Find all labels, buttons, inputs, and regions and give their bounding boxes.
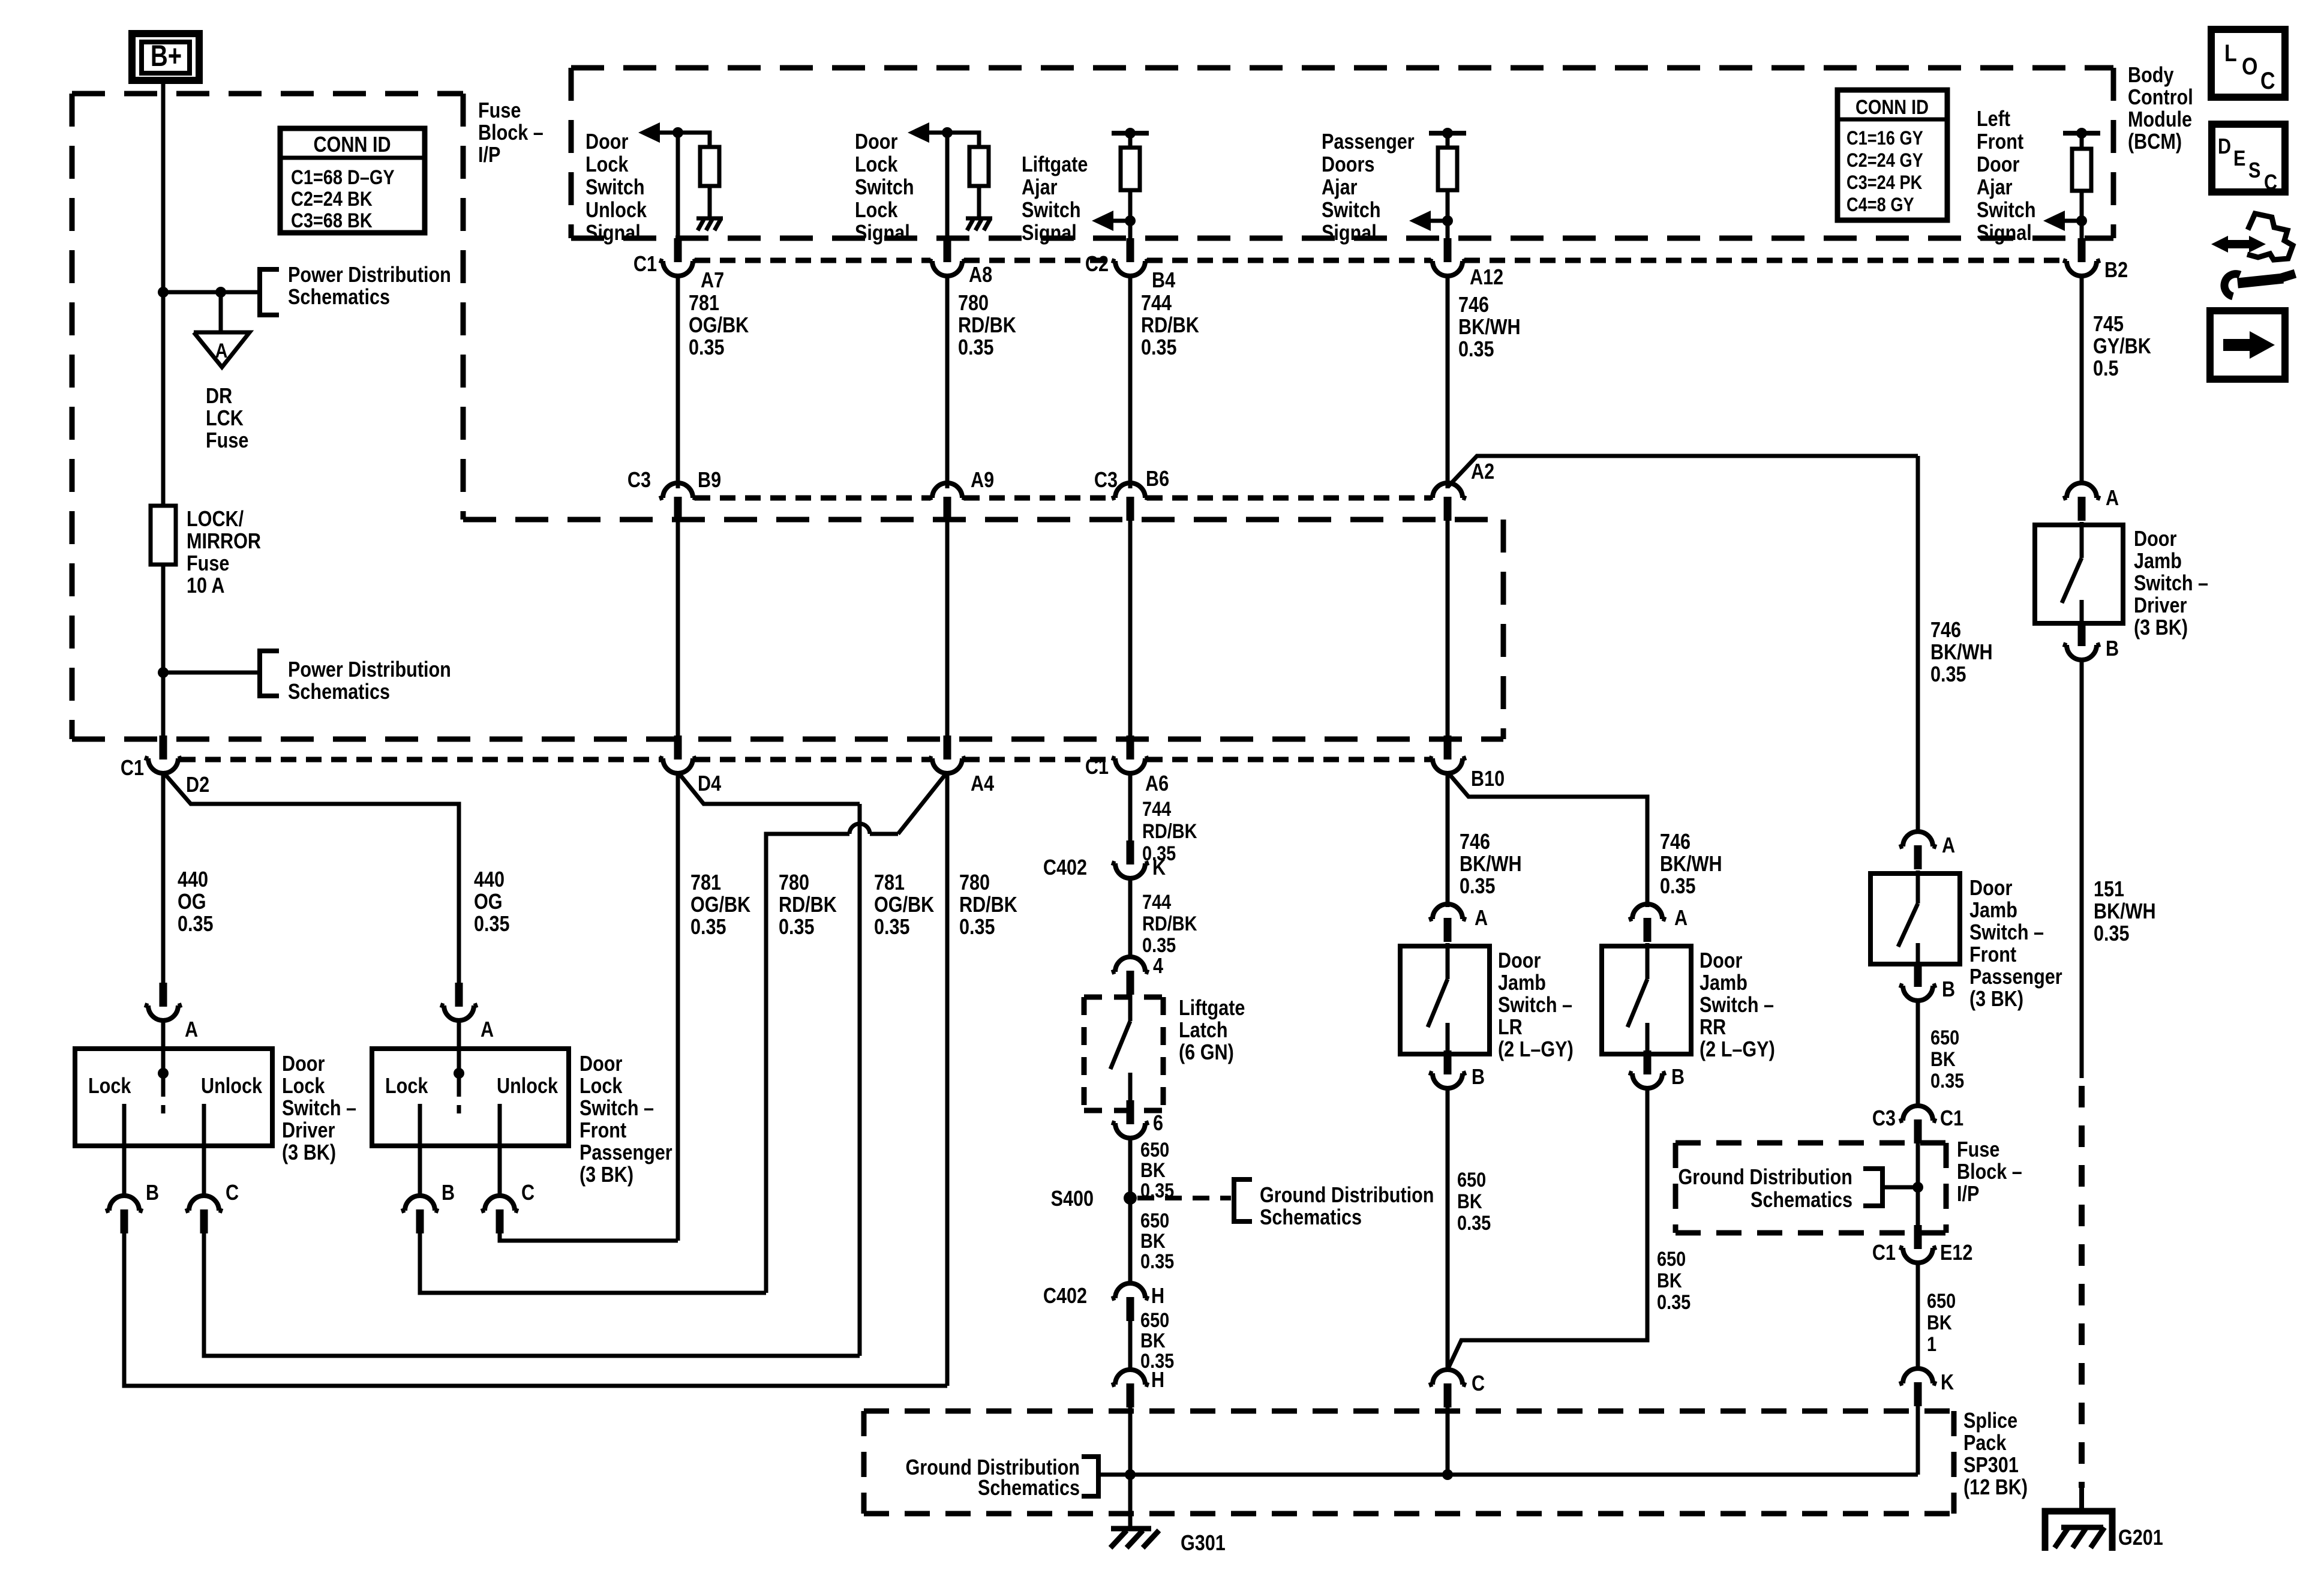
wire H into splice pack: [1128, 1407, 1133, 1475]
label S400: [1051, 1187, 1094, 1211]
svg-text:1: 1: [1927, 1332, 1936, 1356]
svg-text:OG/BK: OG/BK: [874, 893, 934, 917]
label A12: [1470, 266, 1503, 290]
top bar circuit5: [2063, 128, 2100, 139]
door jamb switch RR box: [1602, 946, 1691, 1054]
svg-text:Body: Body: [2128, 64, 2174, 88]
svg-text:440: 440: [474, 868, 505, 892]
svg-text:BK: BK: [1657, 1269, 1682, 1292]
label Door Jamb Switch - LR: [1498, 949, 1574, 1062]
label C402 at K: [1043, 856, 1087, 880]
label 780 RD/BK 0.35 column4: [959, 871, 1017, 939]
svg-text:A9: A9: [971, 469, 994, 493]
label Lock passenger: [385, 1074, 428, 1098]
svg-text:LCK: LCK: [206, 407, 244, 431]
door jamb front passenger contact: [1916, 943, 1920, 964]
svg-text:440: 440: [178, 868, 208, 892]
dashed link S400 to bracket: [1137, 1196, 1231, 1200]
bracket power distribution schematics 2: [260, 651, 279, 696]
svg-text:Door: Door: [585, 130, 628, 154]
svg-text:Switch: Switch: [585, 176, 645, 200]
svg-text:Schematics: Schematics: [978, 1476, 1080, 1500]
svg-text:B+: B+: [151, 39, 182, 73]
label 744 RD/BK 0.35 lower: [1142, 890, 1197, 957]
door jamb front passenger pole: [1916, 870, 1920, 903]
svg-text:BK: BK: [1930, 1047, 1956, 1071]
door jamb LR pole: [1446, 943, 1450, 979]
wire bar to resistor circuit3: [1128, 133, 1133, 148]
resistor circuit4: [1438, 148, 1457, 190]
wire E12 to K: [1916, 1262, 1920, 1370]
branch B10 to RR jamb: [1448, 772, 1647, 907]
svg-text:Switch: Switch: [1022, 199, 1081, 223]
lock switch passenger lock contact: [418, 1104, 422, 1146]
wire driver lock contact to B: [122, 1146, 127, 1197]
svg-text:0.5: 0.5: [2093, 357, 2119, 381]
label B10: [1471, 767, 1505, 791]
svg-text:Door: Door: [1498, 949, 1541, 973]
junction dot circuit4: [1442, 215, 1453, 226]
wire passenger lock to 780 column: [420, 1233, 766, 1293]
svg-text:Signal: Signal: [855, 221, 910, 245]
svg-text:A2: A2: [1471, 460, 1494, 484]
conn id table right (BCM): [1837, 90, 1947, 220]
svg-text:Lock: Lock: [385, 1074, 428, 1098]
svg-text:Module: Module: [2128, 108, 2192, 132]
svg-text:A: A: [1942, 834, 1955, 858]
label E12: [1940, 1241, 1972, 1265]
label D2: [186, 773, 209, 797]
connector B2: [2063, 238, 2100, 276]
fuse block I/P box (left tall dashed outline): [72, 94, 463, 739]
svg-text:Fuse: Fuse: [478, 99, 521, 123]
arrow liftgate ajar signal: [1092, 211, 1130, 231]
wire bus to ground G301: [1128, 1475, 1133, 1527]
wire fuse to power distribution tap 2: [161, 565, 166, 673]
connector C1/E12: [1899, 1225, 1936, 1263]
label C1 at E12: [1872, 1241, 1896, 1265]
label 746 BK/WH 0.35 RR: [1660, 830, 1722, 899]
svg-text:0.35: 0.35: [1457, 1211, 1491, 1235]
svg-text:0.35: 0.35: [874, 915, 910, 939]
connector A door jamb driver: [2063, 483, 2119, 521]
svg-text:0.35: 0.35: [1930, 1069, 1964, 1092]
label Door Jamb Switch - Front Passenger: [1969, 876, 2062, 1011]
dashed wire 151 to G201: [2079, 1086, 2085, 1488]
label 745 GY/BK 0.5: [2093, 313, 2151, 381]
svg-text:A8: A8: [969, 263, 992, 287]
svg-text:650: 650: [1140, 1138, 1169, 1161]
svg-text:0.35: 0.35: [1140, 1250, 1174, 1273]
wire B+ to fuse block: [161, 80, 166, 292]
svg-text:Switch –: Switch –: [1498, 993, 1572, 1017]
svg-text:0.35: 0.35: [474, 912, 510, 936]
svg-text:BK/WH: BK/WH: [1458, 316, 1521, 340]
wire C into splice pack: [1446, 1407, 1450, 1475]
svg-text:RD/BK: RD/BK: [958, 314, 1016, 338]
door jamb switch LR box: [1400, 946, 1490, 1054]
liftgate latch dashed box: [1084, 997, 1163, 1110]
wire circuit2 to A8: [945, 133, 950, 240]
label 151 BK/WH 0.35: [2094, 878, 2156, 946]
svg-text:CONN ID: CONN ID: [313, 133, 391, 157]
door lock switch front passenger box: [372, 1049, 569, 1146]
svg-text:Signal: Signal: [1022, 221, 1077, 245]
wire to triangle connector A: [219, 292, 223, 332]
connector D4: [659, 736, 696, 773]
svg-text:0.35: 0.35: [1141, 336, 1177, 360]
svg-text:Jamb: Jamb: [1969, 899, 2017, 923]
arrow passenger doors ajar signal: [1409, 211, 1448, 231]
connector C402 H: [1112, 1283, 1149, 1321]
svg-text:G201: G201: [2118, 1526, 2163, 1550]
svg-text:Power Distribution: Power Distribution: [288, 263, 451, 287]
door jamb driver contact: [2080, 600, 2084, 623]
label 650 BK 0.35 LR: [1457, 1168, 1491, 1235]
wire passenger unlock contact to C: [498, 1146, 502, 1197]
svg-text:744: 744: [1142, 890, 1172, 914]
label Unlock driver: [201, 1074, 262, 1098]
svg-text:S400: S400: [1051, 1187, 1094, 1211]
wire tap to power distribution bracket 2: [163, 671, 260, 675]
label G201: [2118, 1526, 2163, 1550]
svg-text:Fuse: Fuse: [206, 429, 248, 453]
svg-text:Switch –: Switch –: [1969, 921, 2044, 945]
label B2: [2104, 259, 2128, 283]
liftgate latch switch blade: [1110, 1021, 1130, 1069]
svg-text:(3 BK): (3 BK): [282, 1141, 336, 1165]
svg-text:Control: Control: [2128, 86, 2193, 110]
svg-text:H: H: [1151, 1368, 1164, 1392]
dotted harness line middle: [695, 496, 1431, 501]
svg-text:0.35: 0.35: [690, 915, 726, 939]
svg-text:(12 BK): (12 BK): [1963, 1476, 2028, 1500]
label Liftgate Latch (6 GN): [1179, 996, 1245, 1065]
svg-text:BK/WH: BK/WH: [1930, 641, 1993, 665]
svg-text:Lock: Lock: [580, 1074, 623, 1098]
label Splice Pack SP301 (12 BK): [1963, 1409, 2028, 1500]
icon wiring harness with double arrow and wrench: [2211, 214, 2295, 296]
svg-text:BK: BK: [1140, 1229, 1166, 1253]
liftgate latch switch contact: [1128, 1073, 1133, 1107]
svg-text:746: 746: [1660, 830, 1691, 854]
label 781 OG/BK 0.35 upper: [689, 292, 749, 360]
svg-text:781: 781: [690, 871, 721, 895]
wire passenger unlock to 781 column: [500, 1233, 678, 1241]
wire resistor to ground circuit1: [708, 186, 712, 217]
svg-text:650: 650: [1457, 1168, 1486, 1191]
svg-text:780: 780: [959, 871, 990, 895]
label 744 RD/BK 0.35 mid: [1142, 797, 1197, 865]
svg-text:746: 746: [1460, 830, 1490, 854]
svg-text:D2: D2: [186, 773, 209, 797]
resistor circuit1: [700, 147, 719, 186]
svg-text:C1: C1: [1940, 1107, 1963, 1131]
svg-text:650: 650: [1657, 1247, 1686, 1271]
door jamb driver blade: [2062, 558, 2082, 603]
label 650 BK 0.35 above H: [1140, 1209, 1174, 1273]
label B6: [1146, 467, 1169, 491]
wire resistor to ground circuit2: [977, 186, 981, 217]
label C3 at B6: [1094, 469, 1118, 493]
svg-text:C: C: [1472, 1372, 1485, 1396]
svg-text:780: 780: [779, 871, 809, 895]
resistor circuit2: [969, 147, 989, 186]
label 440 OG 0.35 driver: [178, 868, 214, 936]
label B4: [1152, 269, 1175, 293]
lock switch passenger unlock contact: [498, 1104, 502, 1146]
svg-text:Switch: Switch: [1977, 199, 2036, 223]
svg-text:Door: Door: [1977, 153, 2019, 177]
body control module BCM dashed box: [571, 68, 2113, 238]
svg-text:BK: BK: [1140, 1329, 1166, 1352]
lock switch driver lock contact: [122, 1104, 127, 1146]
svg-text:SP301: SP301: [1963, 1454, 2019, 1478]
connector A door jamb RR: [1629, 904, 1688, 942]
label K: [1152, 856, 1166, 880]
wire front passenger B to C3/C1: [1916, 999, 1920, 1107]
wire driver unlock contact to C: [202, 1146, 206, 1197]
svg-text:B: B: [1942, 978, 1955, 1002]
svg-text:C: C: [226, 1181, 239, 1205]
svg-text:Passenger: Passenger: [1322, 130, 1415, 154]
label A9: [971, 469, 994, 493]
wire circuit4 to A12: [1446, 221, 1450, 240]
svg-text:C2=24 BK: C2=24 BK: [291, 187, 373, 211]
svg-text:C2: C2: [1085, 253, 1109, 277]
svg-text:0.35: 0.35: [1657, 1290, 1691, 1314]
svg-text:Lock: Lock: [282, 1074, 325, 1098]
splice pack bus wire: [1098, 1473, 1918, 1477]
svg-text:A4: A4: [971, 772, 994, 796]
wire H to H: [1128, 1321, 1133, 1371]
label 650 BK 0.35 above S400: [1140, 1138, 1174, 1202]
wire circuit1 to C1/A7: [676, 133, 680, 240]
wire B6 to A6: [1128, 520, 1133, 737]
arrow door lock unlock signal: [638, 122, 678, 143]
ground symbol circuit1: [696, 218, 723, 230]
label Left Front Door Ajar Switch Signal: [1977, 107, 2036, 245]
wire front passenger jamb drop: [1916, 456, 1920, 833]
svg-text:B: B: [146, 1181, 159, 1205]
svg-text:C: C: [2264, 171, 2277, 195]
svg-text:(BCM): (BCM): [2128, 130, 2182, 154]
svg-text:Schematics: Schematics: [1260, 1206, 1362, 1230]
battery B+ symbol: [132, 34, 199, 80]
label Power Distribution Schematics 2: [288, 658, 451, 704]
connector A12: [1429, 238, 1466, 276]
svg-text:746: 746: [1930, 619, 1961, 643]
svg-text:C402: C402: [1043, 1284, 1087, 1308]
connector H splice pack: [1112, 1370, 1149, 1407]
connector B door jamb front passenger: [1899, 963, 1955, 1002]
svg-text:MIRROR: MIRROR: [187, 530, 261, 554]
wire B+ feed down to fuse: [161, 292, 166, 506]
label Door Lock Switch - Front Passenger: [580, 1052, 672, 1187]
svg-text:BK/WH: BK/WH: [1460, 852, 1522, 876]
label A7: [701, 269, 724, 293]
door jamb LR blade: [1428, 979, 1448, 1027]
wire S400 to C402 H: [1128, 1198, 1133, 1284]
svg-text:C1: C1: [121, 757, 144, 781]
liftgate latch switch pole: [1128, 993, 1133, 1021]
small fuse block dashed box (ground distribution): [1676, 1143, 1946, 1233]
bracket ground distribution at S400: [1234, 1179, 1252, 1221]
splice S400: [1124, 1191, 1137, 1205]
wire A2 to B10: [1446, 520, 1450, 737]
label 746 BK/WH 0.35 at A2 branch: [1930, 619, 1993, 687]
wire 6 to S400: [1128, 1137, 1133, 1198]
svg-text:A: A: [1674, 906, 1688, 930]
junction dot circuit1: [672, 127, 683, 138]
connector C402 K: [1112, 840, 1149, 878]
svg-text:BK: BK: [1457, 1190, 1482, 1213]
wire resistor to junction circuit4: [1446, 190, 1450, 221]
wire bar to resistor circuit5: [2080, 133, 2084, 149]
svg-text:746: 746: [1458, 293, 1489, 317]
door jamb RR pole: [1646, 943, 1650, 979]
svg-text:Jamb: Jamb: [1700, 971, 1747, 995]
svg-text:Jamb: Jamb: [2134, 550, 2182, 574]
ground symbol circuit2: [966, 218, 992, 230]
svg-text:C: C: [2260, 67, 2275, 94]
label Door Jamb Switch - Driver: [2134, 527, 2208, 640]
connector B door jamb driver: [2063, 622, 2119, 661]
svg-text:C2=24 GY: C2=24 GY: [1846, 150, 1923, 172]
svg-text:A: A: [185, 1018, 198, 1042]
label Lock driver: [88, 1074, 131, 1098]
svg-text:C: C: [521, 1181, 535, 1205]
svg-text:GY/BK: GY/BK: [2093, 335, 2151, 359]
svg-text:Unlock: Unlock: [497, 1074, 558, 1098]
connector K splice pack: [1899, 1368, 1954, 1406]
connector A door lock switch driver: [145, 983, 198, 1042]
connector A4: [929, 736, 966, 773]
wire circuit5 to B2: [2080, 221, 2084, 240]
label 780 RD/BK 0.35 upper: [958, 292, 1016, 360]
svg-text:A12: A12: [1470, 266, 1503, 290]
ground G301: [1110, 1529, 1159, 1548]
label Body Control Module (BCM): [2128, 64, 2193, 154]
svg-text:Liftgate: Liftgate: [1022, 153, 1088, 177]
svg-text:Driver: Driver: [2134, 594, 2187, 618]
wire B9 to D4: [676, 520, 680, 737]
conn id table left (fuse block): [280, 128, 425, 233]
svg-text:C3: C3: [627, 469, 651, 493]
lock switch driver pole: [158, 1068, 169, 1113]
svg-text:C1: C1: [633, 253, 657, 277]
svg-text:C3=68 BK: C3=68 BK: [291, 209, 373, 232]
label Door Lock Switch - Driver: [282, 1052, 356, 1165]
svg-text:0.35: 0.35: [1458, 338, 1494, 362]
bracket power distribution schematics 1: [260, 269, 279, 315]
svg-text:I/P: I/P: [478, 143, 500, 167]
svg-text:Schematics: Schematics: [288, 680, 390, 704]
svg-text:Splice: Splice: [1963, 1409, 2017, 1433]
connector A8: [929, 238, 966, 276]
svg-text:C3: C3: [1094, 469, 1118, 493]
label 780 RD/BK 0.35 column2: [779, 871, 837, 939]
svg-text:Schematics: Schematics: [1750, 1188, 1852, 1212]
connector C3/B9: [659, 483, 696, 521]
label Passenger Doors Ajar Switch Signal: [1322, 130, 1415, 245]
svg-text:Switch: Switch: [1322, 199, 1381, 223]
connector C lock switch passenger: [481, 1181, 535, 1233]
svg-text:BK/WH: BK/WH: [1660, 852, 1722, 876]
svg-text:Signal: Signal: [1322, 221, 1377, 245]
svg-text:LR: LR: [1498, 1016, 1523, 1040]
svg-text:L: L: [2224, 39, 2237, 66]
connector A2: [1429, 483, 1466, 521]
wire 781 OG/BK A7 to B9: [676, 275, 680, 488]
wire tap to power distribution bracket 1: [163, 290, 260, 295]
wire driver unlock to 781 column3: [204, 1233, 860, 1356]
svg-text:Signal: Signal: [585, 221, 641, 245]
label G301: [1181, 1532, 1226, 1556]
label 746 BK/WH 0.35 upper: [1458, 293, 1521, 362]
wire 781 OG/BK column3: [858, 804, 862, 1356]
arrow door lock lock signal: [908, 122, 947, 143]
svg-text:D4: D4: [698, 772, 721, 796]
svg-text:A6: A6: [1145, 772, 1169, 796]
svg-text:650: 650: [1140, 1308, 1169, 1332]
svg-text:Block –: Block –: [478, 121, 544, 145]
svg-text:Latch: Latch: [1179, 1019, 1228, 1043]
label C1 at D2: [121, 757, 144, 781]
label C402 at H: [1043, 1284, 1087, 1308]
junction dot circuit2: [942, 127, 953, 138]
fuse LOCK/MIRROR 10A: [151, 506, 176, 565]
junction node at power distribution tap 2: [158, 667, 169, 678]
wire 440 OG driver drop: [161, 772, 166, 984]
label D4: [698, 772, 721, 796]
svg-text:Pack: Pack: [1963, 1431, 2007, 1455]
label Ground Distribution Schematics splice: [905, 1456, 1080, 1500]
connector 4 liftgate latch: [1112, 957, 1149, 995]
svg-text:Ground Distribution: Ground Distribution: [1678, 1166, 1852, 1190]
wire resistor to junction circuit3: [1128, 190, 1133, 221]
svg-text:A: A: [1475, 906, 1488, 930]
label C3 at C1: [1872, 1107, 1896, 1131]
door jamb switch front passenger box: [1870, 873, 1960, 964]
junction dot circuit3: [1125, 215, 1136, 226]
svg-text:6: 6: [1153, 1112, 1163, 1136]
label A6: [1145, 772, 1169, 796]
connector C2/B4: [1112, 238, 1149, 276]
wire 781 OG/BK column1: [676, 772, 680, 1241]
svg-text:C1=16 GY: C1=16 GY: [1846, 128, 1923, 149]
fuse block I/P lower-right dashed outline: [72, 520, 1503, 739]
svg-text:Door: Door: [580, 1052, 622, 1076]
svg-text:Ajar: Ajar: [1022, 176, 1058, 200]
svg-text:C3=24 PK: C3=24 PK: [1846, 172, 1923, 194]
wire driver lock to 780 column4: [124, 1233, 947, 1386]
connector C3/B6: [1112, 483, 1149, 521]
svg-text:(2 L–GY): (2 L–GY): [1700, 1038, 1775, 1062]
top bar circuit4: [1429, 128, 1466, 139]
svg-text:Switch –: Switch –: [580, 1097, 654, 1121]
svg-text:I/P: I/P: [1957, 1182, 1979, 1206]
connector A9: [929, 483, 966, 521]
junction dot in small box: [1912, 1182, 1923, 1193]
wire resistor to junction circuit5: [2080, 191, 2084, 221]
connector B lock switch passenger: [401, 1181, 455, 1233]
svg-text:RD/BK: RD/BK: [1142, 819, 1197, 843]
label 746 BK/WH 0.35 LR: [1460, 830, 1522, 899]
svg-text:Driver: Driver: [282, 1119, 335, 1143]
svg-text:Door: Door: [1969, 876, 2012, 900]
label Liftgate Ajar Switch Signal: [1022, 153, 1088, 245]
